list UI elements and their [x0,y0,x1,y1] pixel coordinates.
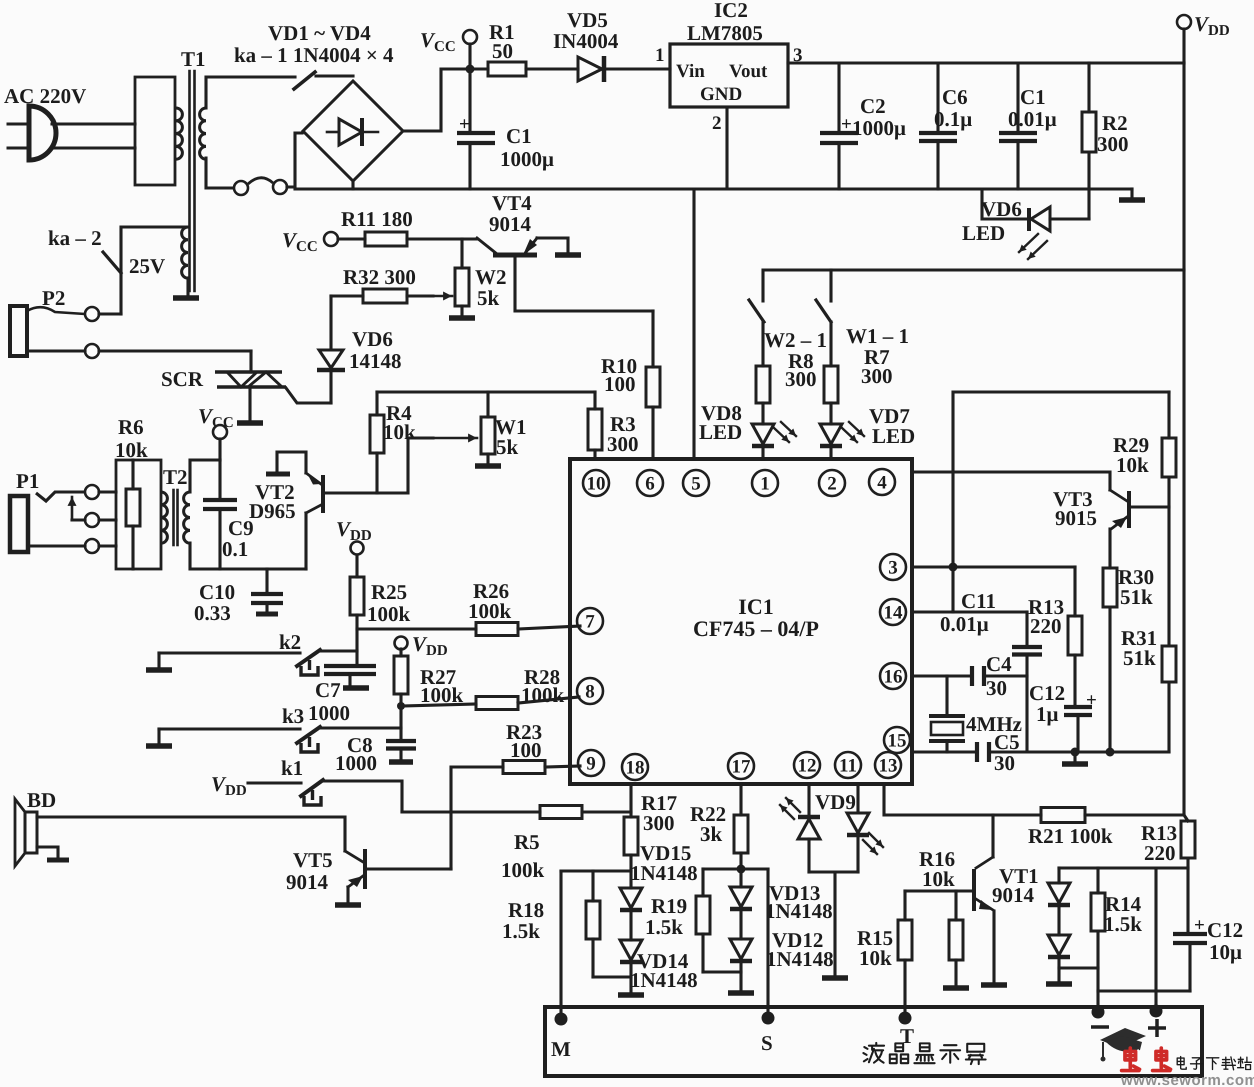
svg-text:300: 300 [607,432,639,456]
svg-text:LED: LED [962,221,1005,245]
pin 1 [752,470,778,496]
svg-text:VD9: VD9 [815,790,856,814]
svg-text:11: 11 [839,756,857,777]
pin 14 [880,599,906,625]
wire pin18 riser [629,784,632,817]
wire pin13 bus [884,784,1041,815]
svg-text:1.5k: 1.5k [645,915,683,939]
VDD terminal 2 [395,637,408,650]
svg-text:50: 50 [492,39,513,63]
svg-text:100: 100 [510,738,542,762]
pin 7 [577,608,603,634]
wire S riser [766,869,769,1012]
svg-text:VD6: VD6 [352,327,393,351]
svg-text:14: 14 [884,603,904,624]
pin 5 [683,470,709,496]
svg-text:C11: C11 [961,589,996,613]
VDD terminal top right [1177,15,1191,29]
pin 15 [884,727,910,753]
svg-text:SCR: SCR [161,367,204,391]
svg-text:T2: T2 [163,465,188,489]
svg-text:7: 7 [585,612,595,633]
svg-text:9014: 9014 [992,883,1035,907]
svg-text:100k: 100k [501,858,545,882]
wire M node [561,869,631,872]
LED VD9 right [856,784,859,812]
pin 6 [637,470,663,496]
ground VD9 [822,975,848,981]
svg-text:P2: P2 [42,286,65,310]
ground symbol rail end [1130,189,1133,198]
svg-text:300: 300 [861,364,893,388]
potentiometer W2 5k [430,295,452,298]
svg-text:10k: 10k [859,946,892,970]
svg-text:0.33: 0.33 [194,601,231,625]
svg-text:ka – 1 1N4004 × 4: ka – 1 1N4004 × 4 [234,43,394,67]
svg-text:k2: k2 [279,630,301,654]
wire diode bias bus [1059,866,1188,869]
pin 9 [578,750,604,776]
svg-text:LED: LED [872,424,915,448]
svg-text:LM7805: LM7805 [687,21,763,45]
wire minus net [1098,989,1190,992]
svg-text:5k: 5k [496,435,519,459]
ground k2 [157,653,160,668]
svg-text:T: T [900,1024,914,1048]
svg-text:51k: 51k [1120,585,1153,609]
svg-text:k1: k1 [281,756,303,780]
capacitor C1 0.01u [1016,63,1019,131]
switch ka-1 blade [294,72,315,89]
svg-text:16: 16 [884,667,903,688]
svg-text:10: 10 [587,474,606,495]
svg-text:R6: R6 [118,415,144,439]
wire S node bracket [703,867,768,870]
svg-text:C4: C4 [986,652,1012,676]
wire pin5 to rail [692,189,695,459]
terminal T [899,1012,912,1025]
T1 core [188,71,191,291]
svg-text:C1: C1 [506,124,532,148]
svg-text:Vout: Vout [729,61,768,82]
svg-text:3k: 3k [700,822,723,846]
svg-text:12: 12 [798,756,817,777]
svg-text:14148: 14148 [349,349,402,373]
svg-text:1000μ: 1000μ [852,116,906,140]
wire P2 to SCR [99,349,251,352]
LED VD9 left [807,784,810,817]
svg-text:0.01μ: 0.01μ [940,612,989,636]
wire plus riser [1154,868,1157,1012]
svg-text:C2: C2 [860,94,886,118]
SCR gate wire [286,388,331,403]
ground k3 [157,729,160,744]
wire BD to VT5 [37,817,345,851]
wire T1 secondary top [206,77,295,108]
wire VD9 common [809,870,858,873]
ground SCR [248,387,251,421]
wire VT5 base [367,867,451,870]
svg-text:1N4148: 1N4148 [630,861,698,885]
svg-text:2: 2 [827,474,837,495]
svg-text:1N4148: 1N4148 [630,968,698,992]
node ground junction [1071,748,1080,757]
T1 25V secondary winding [182,227,188,278]
svg-text:BD: BD [27,788,56,812]
svg-text:T1: T1 [181,47,206,71]
wire R1 to VD5 [526,67,578,70]
wire pin3 bus [912,565,1075,568]
svg-text:1.5k: 1.5k [1104,912,1142,936]
wire diode to R14 bottom [1059,966,1098,969]
svg-text:10μ: 10μ [1209,940,1242,964]
wire k1 bus to R5 [402,810,540,813]
pin 4 [869,469,895,495]
terminal M [555,1013,568,1026]
wire R27 to R28 [401,704,476,706]
svg-text:30: 30 [986,676,1007,700]
VDD rail right side [1182,63,1185,815]
svg-text:S: S [761,1031,773,1055]
diode VD10 [1057,868,1060,883]
fuse connector circles [234,181,248,195]
svg-text:www.seworm.com: www.seworm.com [1120,1072,1254,1087]
node Vcc junction [466,65,475,74]
svg-text:1000: 1000 [308,701,350,725]
svg-text:5k: 5k [477,286,500,310]
potentiometer W1 5k [433,437,477,440]
terminal S [762,1012,775,1025]
svg-text:25V: 25V [129,254,165,278]
wire bridge output to Vcc node [403,69,488,131]
wire IC2 Vout to VDD [788,61,1184,64]
svg-text:0.1μ: 0.1μ [934,107,972,131]
svg-text:300: 300 [1097,132,1129,156]
svg-text:CF745 – 04/P: CF745 – 04/P [693,616,819,641]
svg-text:0.1: 0.1 [222,537,248,561]
svg-text:C7: C7 [315,678,341,702]
svg-text:1.5k: 1.5k [502,919,540,943]
svg-text:k3: k3 [282,704,304,728]
pin 17 [728,753,754,779]
wire R4 top bus [377,390,595,393]
ground rail [295,187,1132,190]
svg-text:C1: C1 [1020,85,1046,109]
svg-text:1N4148: 1N4148 [766,947,834,971]
svg-text:VT5: VT5 [293,848,333,872]
pin 11 [835,752,861,778]
svg-text:D965: D965 [249,499,296,523]
svg-text:1: 1 [655,45,665,66]
terminal minus [1092,1006,1105,1019]
op-amp IC1 CF745-04/P [570,459,912,784]
svg-text:30: 30 [994,751,1015,775]
wire plug to T1 [52,122,135,125]
svg-text:6: 6 [645,474,655,495]
ground VD14 [618,992,644,998]
pin 12 [794,752,820,778]
svg-text:2: 2 [712,113,722,134]
wire pin17 riser [739,784,742,815]
svg-text:Vin: Vin [676,61,705,82]
wire T1 secondary bottom to fuse [206,158,233,188]
svg-text:9015: 9015 [1055,506,1097,530]
svg-text:51k: 51k [1123,646,1156,670]
pin 2 [819,470,845,496]
T1 primary winding [176,108,182,159]
svg-text:10k: 10k [922,867,955,891]
pin 3 [880,554,906,580]
capacitor C6 0.1u [936,63,939,131]
svg-text:100k: 100k [367,602,411,626]
diode VD11 [1048,935,1070,955]
wire fuse to bridge left corner [287,133,302,187]
terminal plus [1150,1005,1163,1018]
wire R25 node to R26 [357,627,476,630]
svg-text:13: 13 [879,756,898,777]
svg-text:9014: 9014 [286,870,329,894]
svg-text:18: 18 [626,758,645,779]
LED VD6 power indicator [982,189,1029,219]
svg-text:0.01μ: 0.01μ [1008,107,1057,131]
wires P1 to R6 box [99,490,116,493]
capacitor C2 1000u [837,63,840,131]
svg-text:4: 4 [877,473,887,494]
svg-text:300: 300 [785,367,817,391]
svg-text:IN4004: IN4004 [553,29,619,53]
svg-text:220: 220 [1030,614,1062,638]
svg-text:5: 5 [691,474,701,495]
switch ka-2 [121,227,188,273]
svg-text:10k: 10k [383,420,416,444]
pin 18 [622,754,648,780]
wire pin16 to C4 [912,674,972,677]
svg-text:10k: 10k [115,438,148,462]
svg-text:1: 1 [760,474,770,495]
wire pin15 to C5 [912,750,977,753]
svg-text:9: 9 [586,754,596,775]
svg-text:220: 220 [1144,841,1176,865]
svg-text:VD1 ~ VD4: VD1 ~ VD4 [268,21,371,45]
svg-text:100k: 100k [468,599,512,623]
svg-text:9014: 9014 [489,212,532,236]
pin 13 [875,752,901,778]
transformer T1 primary box [135,77,175,185]
capacitor C1 1000u [468,73,471,131]
svg-text:GND: GND [700,84,742,105]
svg-text:1N4148: 1N4148 [765,899,833,923]
pin 8 [577,678,603,704]
wire VT1 base [905,889,972,892]
ground 25V winding [186,278,189,296]
wire pin14 [912,610,1027,613]
node R22 bottom [737,865,746,874]
pin 16 [880,663,906,689]
svg-text:R32 300: R32 300 [343,265,416,289]
svg-text:C6: C6 [942,85,968,109]
pin 10 [583,470,609,496]
T1 secondary winding [200,108,206,159]
svg-text:LED: LED [699,420,742,444]
svg-text:300: 300 [643,811,675,835]
wire T2 bottom rail [220,567,306,570]
svg-text:1000: 1000 [335,751,377,775]
wire IC2 pin2 to rail [725,107,728,189]
svg-text:8: 8 [585,682,595,703]
svg-text:R25: R25 [371,580,407,604]
svg-text:M: M [551,1037,571,1061]
LCD display module [545,1007,1202,1076]
bridge rectifier VD1-VD4 [303,81,403,181]
svg-text:IC2: IC2 [714,0,748,22]
svg-text:R11 180: R11 180 [341,207,413,231]
watermark logo [1100,1028,1254,1087]
wire M riser [559,871,562,1012]
svg-text:AC 220V: AC 220V [4,84,86,108]
svg-text:100: 100 [604,372,636,396]
ground VD12 [728,990,754,996]
svg-text:R5: R5 [514,830,540,854]
wire VT2 base network [325,438,433,493]
svg-text:C12: C12 [1207,918,1243,942]
svg-text:R21 100k: R21 100k [1028,824,1113,848]
svg-text:3: 3 [888,558,898,579]
T2 secondary box [190,460,220,492]
resistor R2 [1087,63,1090,112]
svg-text:P1: P1 [16,469,39,493]
node R27 bottom [397,702,405,710]
wire R18 bottom [593,975,631,978]
svg-text:17: 17 [732,757,752,778]
svg-text:15: 15 [888,731,907,752]
P2 second contact [85,344,99,358]
svg-text:ka – 2: ka – 2 [48,226,102,250]
AC plug 220V [29,106,56,160]
wire VDD to panel switches [763,270,1184,301]
svg-text:10k: 10k [1116,453,1149,477]
svg-text:VD6: VD6 [981,197,1022,221]
ground diode chain [1046,981,1072,987]
ground crystal net [1073,752,1076,762]
node pin3 junction [949,563,958,572]
svg-text:1000μ: 1000μ [500,147,554,171]
svg-text:1μ: 1μ [1036,702,1059,726]
